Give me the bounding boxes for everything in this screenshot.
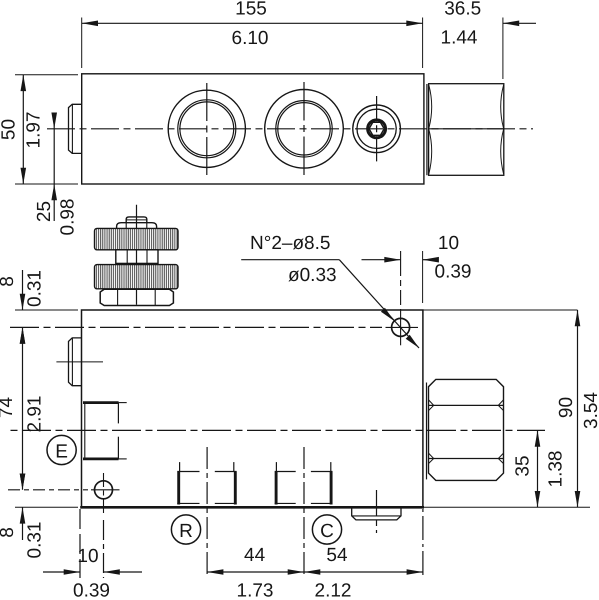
- text 54: [326, 545, 348, 566]
- text 1.38 rotated: [546, 451, 567, 488]
- svg-text:1.44: 1.44: [441, 28, 478, 49]
- dimension 25 / 0.98 (top view left lower): [51, 113, 57, 222]
- svg-text:3.54: 3.54: [581, 392, 599, 429]
- text 0.39 bottom: [73, 581, 110, 600]
- hex nut fitting (top view, right end): [427, 84, 504, 176]
- text 74 rotated: [0, 397, 17, 419]
- end plug on left face (side view): [69, 338, 82, 386]
- text 155: [235, 0, 267, 20]
- text 90 rotated: [556, 397, 577, 418]
- upper horizontal centerline (through drilled holes): [10, 326, 382, 328]
- svg-text:10: 10: [438, 233, 459, 254]
- svg-text:1.38: 1.38: [546, 451, 567, 488]
- svg-text:N°2–ø8.5: N°2–ø8.5: [250, 233, 330, 254]
- svg-text:0.98: 0.98: [58, 199, 79, 236]
- svg-text:0.39: 0.39: [73, 581, 110, 600]
- text 2.12: [315, 581, 352, 600]
- text 1.97 rotated: [24, 112, 45, 149]
- dimension 74 / 2.91 (side view left): [20, 327, 26, 489]
- svg-text:54: 54: [326, 545, 348, 566]
- dimension 155 / 6.10 (top): [82, 18, 423, 69]
- dimension 36.5 / 1.44 (top right): [423, 18, 536, 80]
- drilled mounting hole (top right of side view): [386, 251, 419, 345]
- text 0.31 top rotated: [25, 270, 46, 307]
- svg-text:35: 35: [513, 455, 534, 476]
- knob bottom hex nut: [100, 289, 173, 305]
- dimension 90 / 3.54 (right): [575, 310, 581, 507]
- label E: [47, 435, 76, 464]
- text 10 bottom: [77, 546, 98, 567]
- text 8 bottom rotated: [0, 527, 18, 538]
- dimension 10 / 0.39 (bottom left): [43, 569, 142, 575]
- label C: [312, 515, 341, 544]
- svg-text:44: 44: [244, 545, 266, 566]
- svg-text:0.39: 0.39: [435, 262, 472, 283]
- svg-text:R: R: [179, 521, 193, 542]
- svg-text:10: 10: [77, 546, 98, 567]
- dimension 54 / 2.12 (bottom): [304, 569, 423, 575]
- svg-text:8: 8: [0, 276, 18, 287]
- adjustment knob centerline: [136, 205, 138, 308]
- svg-text:74: 74: [0, 397, 17, 419]
- text 1.73: [237, 581, 274, 600]
- svg-text:E: E: [55, 441, 68, 462]
- extension below hole centerline: [103, 520, 105, 578]
- dimension 10 / 0.39 (top right of side view): [362, 251, 439, 303]
- dimension 35 / 1.38 (right inner): [535, 430, 541, 507]
- text 0.33: [288, 265, 337, 286]
- main horizontal centerline (top view): [47, 128, 533, 130]
- port R cavity: [177, 462, 236, 504]
- text 50 rotated: [0, 119, 20, 140]
- top view block body: [82, 74, 424, 184]
- svg-text:2.12: 2.12: [315, 581, 352, 600]
- svg-text:2.91: 2.91: [25, 396, 46, 433]
- knob middle hex nut: [116, 250, 158, 264]
- svg-text:90: 90: [556, 397, 577, 418]
- svg-text:1.97: 1.97: [24, 112, 45, 149]
- text N2-8.5: [250, 233, 330, 254]
- mounting hole (side view lower left): [91, 473, 120, 516]
- label R: [171, 515, 200, 544]
- svg-text:C: C: [320, 521, 334, 542]
- cavity port V1 (left large circle): [168, 90, 245, 167]
- svg-text:36.5: 36.5: [444, 0, 481, 20]
- plug crosshair line: [56, 361, 103, 363]
- svg-text:0.31: 0.31: [25, 270, 46, 307]
- svg-text:155: 155: [235, 0, 267, 20]
- knurled wheel 2: [95, 265, 179, 289]
- knurled wheel 1: [95, 228, 179, 249]
- extension below block right edge: [422, 509, 424, 578]
- hex nut fitting (side view, right end): [427, 379, 504, 480]
- leader line N2-8.5: [241, 260, 419, 348]
- bottom plug centerline: [376, 490, 378, 533]
- centerline V2 vertical: [303, 82, 305, 176]
- text 1.44: [441, 28, 478, 49]
- port E cavity (left face): [83, 403, 127, 459]
- text 8 top rotated: [0, 276, 18, 287]
- svg-text:6.10: 6.10: [232, 28, 269, 49]
- bottom plug under block: [352, 508, 401, 520]
- text 10 top right: [438, 233, 459, 254]
- svg-text:50: 50: [0, 119, 20, 140]
- text 0.31 bottom rotated: [25, 522, 46, 559]
- port C cavity: [275, 462, 333, 504]
- port R centerline: [206, 447, 208, 578]
- bottom edge extension to 90 dim: [424, 506, 590, 508]
- end plug on left face (top view): [69, 104, 82, 153]
- centerline V1 vertical: [206, 83, 208, 175]
- text 36.5: [444, 0, 481, 20]
- svg-text:0.31: 0.31: [25, 522, 46, 559]
- svg-text:ø0.33: ø0.33: [288, 265, 337, 286]
- dimension 44 / 1.73 (bottom): [207, 569, 304, 575]
- port C centerline: [303, 447, 305, 578]
- dimension 50 / 1.97 (top view left): [15, 75, 78, 184]
- top edge extension to 90 dim: [423, 309, 578, 311]
- extension below block left edge: [79, 509, 81, 578]
- text 2.91 rotated: [25, 396, 46, 433]
- text 25 rotated: [34, 201, 55, 222]
- text 44: [244, 545, 266, 566]
- text 0.39 top right: [435, 262, 472, 283]
- dimension 8 bottom (side view left): [15, 474, 78, 541]
- svg-text:1.73: 1.73: [237, 581, 274, 600]
- side view block body: [80, 310, 424, 507]
- text 35 rotated: [513, 455, 534, 476]
- cavity port V2 (right large circle): [265, 90, 344, 169]
- lower horizontal centerline (valve axis): [10, 429, 545, 431]
- text 3.54 rotated: [581, 392, 599, 429]
- svg-text:25: 25: [34, 201, 55, 222]
- svg-text:8: 8: [0, 527, 18, 538]
- text 6.10: [232, 28, 269, 49]
- knob upper hex crown: [117, 223, 157, 229]
- knob top cap: [126, 217, 147, 222]
- centerline V3 vertical: [376, 96, 378, 162]
- mounting hole centerline extension left: [8, 489, 88, 491]
- dimension 8 top (side view left): [15, 270, 78, 344]
- text 0.98 rotated: [58, 199, 79, 236]
- socket plug V3 (small circle with hex socket): [353, 105, 401, 153]
